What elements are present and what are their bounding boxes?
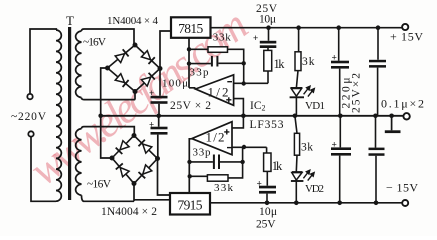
- wire 7815 output rail +15V: [211, 27, 403, 29]
- wire 33p top left lead: [189, 63, 211, 65]
- wire 10u bottom cap to -15V rail: [266, 194, 268, 203]
- svg-text:+: +: [253, 34, 258, 44]
- regulator U3 7915: [170, 193, 210, 215]
- ground symbol: [391, 116, 393, 131]
- capacitor C3 10u 25V top: [253, 34, 276, 48]
- svg-text:33k: 33k: [213, 32, 232, 44]
- capacitor C4 220u top: [331, 53, 349, 68]
- wire secondary2 bottom lead: [82, 195, 135, 201]
- regulator U1 7815: [171, 17, 211, 38]
- node -15V rail 0.1u: [374, 201, 379, 206]
- wire op-amp2 output stub to 7915 ground chain: [189, 139, 192, 193]
- svg-text:~16V: ~16V: [87, 179, 112, 191]
- terminal +15V: [402, 24, 408, 30]
- node rail-opamp plus inputs: [241, 114, 246, 119]
- node top rail 0.1u: [376, 25, 381, 30]
- svg-text:33p: 33p: [193, 147, 212, 159]
- wire 10u top leads: [267, 28, 270, 51]
- wire bridge2 right corner to 7915 input: [158, 159, 171, 196]
- svg-text:+: +: [149, 119, 154, 129]
- node bridge1 bottom corner: [133, 89, 138, 94]
- node rail-centertap: [98, 114, 103, 119]
- capacitor C8 220u bottom: [331, 141, 351, 156]
- wire 33p top right lead: [218, 62, 243, 64]
- node rail-100u: [156, 114, 161, 119]
- wire mains input top to primary: [30, 29, 56, 94]
- transformer secondary winding 1 (top, ~16V): [76, 31, 82, 98]
- svg-text:7915: 7915: [178, 198, 203, 213]
- bridge rectifier 1 diamond (1N4004 x4): [108, 45, 161, 92]
- resistor R1 33k top: [208, 32, 231, 53]
- wire bridge1 + output down to 100u cap: [159, 69, 161, 96]
- node bridge1 top corner: [133, 43, 138, 48]
- LED VD2: [291, 170, 315, 181]
- svg-text:1N4004 × 2: 1N4004 × 2: [101, 206, 157, 218]
- node rail-ground: [389, 114, 394, 119]
- resistor R2 1k top: [264, 50, 285, 71]
- wire 33k top left lead: [189, 48, 208, 50]
- wire 220u top leads: [339, 28, 340, 116]
- wire 3k bottom leads: [295, 116, 297, 172]
- svg-text:3k: 3k: [302, 56, 315, 68]
- wire 33p bottom left lead: [190, 161, 213, 163]
- wire secondary1 top lead to bridge1 top corner: [82, 29, 135, 45]
- node -15V rail 10u: [265, 201, 270, 206]
- svg-text:1/2: 1/2: [206, 130, 225, 145]
- diode D3 bridge1 bottom-left: [115, 74, 128, 87]
- svg-text:~16V: ~16V: [83, 37, 107, 49]
- svg-text:25V: 25V: [256, 219, 276, 231]
- node 33k2 left junction: [188, 174, 192, 178]
- wire 0V rail to 100u bottom cap: [158, 116, 160, 127]
- wire op-amp1 inverting input line: [234, 82, 268, 84]
- terminal 0V common: [403, 113, 409, 119]
- svg-text:+: +: [332, 141, 337, 151]
- wire 7915 output rail -15V: [210, 202, 402, 204]
- wire 33p bottom right lead: [220, 161, 243, 163]
- node bridge2 top corner: [132, 133, 137, 138]
- svg-text:1k: 1k: [272, 159, 283, 173]
- resistor R3 3k top: [295, 52, 315, 71]
- capacitor 100u bottom (25V x2): [149, 119, 168, 134]
- wire bridge1 + output up to 7815 input: [160, 31, 171, 69]
- svg-text:3k: 3k: [301, 142, 313, 154]
- node rail-VD1/VD2: [293, 114, 298, 119]
- node top rail 3k: [296, 25, 301, 30]
- wire 7815 ground pin down to feedback network and op-amp1 output: [189, 38, 196, 88]
- wire VD1 cathode to 0V rail: [295, 97, 297, 116]
- resistor R6 3k bottom: [294, 133, 313, 155]
- wire 0.1u bottom leads: [375, 116, 378, 203]
- node bridge1 left corner: [105, 66, 110, 71]
- diode D4 bridge1 bottom-right: [141, 73, 154, 86]
- terminal -15V: [402, 200, 408, 206]
- wire 0.1u top leads: [377, 28, 379, 116]
- wire 1k top bottom lead to inverting line: [267, 71, 269, 83]
- node inverting input junction op-amp1: [242, 81, 246, 85]
- svg-text:+ 15V: + 15V: [390, 30, 423, 44]
- transformer primary winding: [56, 30, 61, 201]
- svg-text:+: +: [149, 88, 154, 98]
- bridge rectifier 2 diamond (1N4004 x2): [112, 136, 158, 184]
- svg-text:VD2: VD2: [305, 183, 324, 195]
- transformer secondary winding 2 (bottom, ~16V): [76, 129, 82, 196]
- svg-text:1k: 1k: [274, 57, 286, 71]
- wire center tap: bridge1 left corner down to bridge2 left corner: [101, 68, 112, 158]
- wire secondary2 top lead to bridge2 top corner: [82, 127, 135, 136]
- wire 33k bottom left lead: [190, 175, 208, 177]
- capacitor C5 0.1u top: [369, 60, 386, 68]
- wire 33k bottom right lead up to inverting node: [228, 147, 243, 178]
- svg-text:10μ: 10μ: [259, 13, 276, 25]
- node -15V rail VD2: [294, 201, 299, 206]
- svg-text:+: +: [332, 53, 337, 63]
- resistor R5 1k bottom: [264, 153, 283, 173]
- capacitor C9 0.1u bottom: [369, 148, 385, 156]
- node 33k1 left junction: [187, 47, 191, 51]
- node rail-220u: [338, 114, 343, 119]
- wire 220u bottom leads: [339, 116, 342, 203]
- svg-text:VD1: VD1: [305, 100, 325, 112]
- capacitor 100u top (25V x2): [149, 88, 168, 104]
- node rail-0.1u: [373, 114, 378, 119]
- capacitor C6 33p bottom: [193, 147, 221, 170]
- node 33p2 right junction: [240, 160, 244, 164]
- svg-text:1N4004 × 4: 1N4004 × 4: [107, 15, 159, 27]
- wire 33k top right lead down to inverting node: [228, 49, 244, 83]
- svg-text:~220V: ~220V: [11, 111, 47, 123]
- node bridge2 left corner: [110, 156, 115, 161]
- svg-text:− 15V: − 15V: [386, 181, 418, 195]
- svg-text:33k: 33k: [214, 182, 234, 194]
- svg-text:T: T: [66, 13, 74, 28]
- svg-text:10μ: 10μ: [259, 206, 277, 218]
- wire 1k bottom to 10u bottom cap: [266, 171, 268, 185]
- terminal circle mains top: [27, 94, 32, 99]
- wire op-amp1 non-inverting input to 0V rail and op-amp2: [232, 99, 243, 128]
- node 33p1 left junction: [187, 61, 191, 65]
- node top rail 220u: [336, 25, 341, 30]
- node bridge2 bottom corner: [132, 181, 137, 186]
- wire mains input bottom to primary: [31, 137, 56, 202]
- resistor R4 33k bottom: [207, 175, 233, 194]
- diode D1 bridge1 top-left: [115, 49, 128, 62]
- wire op-amp2 inverting input line: [232, 147, 267, 153]
- wire bridge2 bottom corner to 7915: [134, 184, 170, 202]
- node bridge2 right corner: [155, 156, 160, 161]
- svg-text:25V × 2: 25V × 2: [170, 100, 211, 112]
- wire 100u bottom cap to bridge2 right corner: [157, 135, 159, 159]
- terminal circle mains bottom: [28, 131, 33, 136]
- diode D7 bridge2 bottom-left: [116, 163, 129, 176]
- wire secondary1 bottom lead to bridge1 bottom corner: [82, 92, 136, 100]
- svg-text:+: +: [257, 179, 262, 189]
- transformer core: [68, 27, 71, 200]
- wire 0V rail: [101, 115, 404, 117]
- node 33p1 right junction: [242, 61, 246, 65]
- diode D2 bridge1 top-right: [141, 51, 154, 64]
- svg-text:33p: 33p: [190, 66, 210, 78]
- node inverting input junction op-amp2: [242, 145, 246, 149]
- diode D5 bridge2 top-left: [116, 141, 129, 154]
- diode D8 bridge2 bottom-right: [139, 165, 152, 178]
- op-amp U2b (1/2 LF353): [192, 122, 232, 155]
- node bridge1 right corner: [158, 66, 163, 71]
- svg-text:100μ: 100μ: [162, 78, 188, 90]
- op-amp U2a (1/2 LF353): [196, 75, 234, 106]
- svg-text:7815: 7815: [178, 21, 203, 36]
- capacitor C7 10u 25V bottom: [257, 179, 277, 193]
- capacitor C2 33p top: [190, 56, 219, 78]
- node 33p2 left junction: [187, 160, 191, 164]
- node -15V rail 220u: [337, 201, 342, 206]
- wire 100u top cap to 0V rail: [158, 104, 160, 116]
- wire VD2 cathode to -15V rail: [295, 181, 297, 203]
- LED VD1: [290, 86, 315, 97]
- diode D6 bridge2 top-right: [139, 140, 152, 153]
- svg-text:1/2: 1/2: [208, 85, 229, 100]
- svg-text:LF353: LF353: [250, 119, 284, 131]
- wire 3k top leads: [296, 28, 298, 88]
- node top rail 10u: [266, 25, 271, 30]
